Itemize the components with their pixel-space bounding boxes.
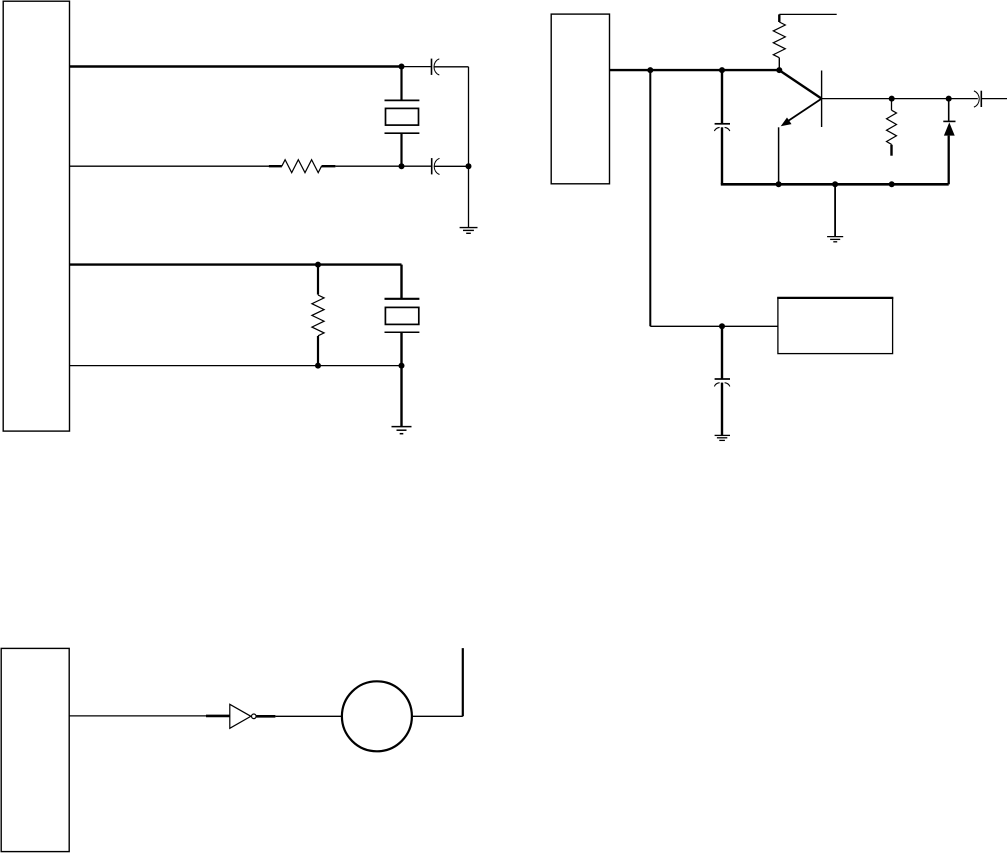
- wire base line to right: [822, 98, 978, 100]
- node A junction dot: [399, 64, 405, 70]
- wire node C to C2: [402, 165, 432, 167]
- transistor Q1 base bar: [821, 71, 823, 128]
- resistor R1 lead left: [269, 165, 282, 167]
- resistor R2 lead bottom: [317, 336, 319, 366]
- wire node A to C1: [402, 66, 431, 68]
- resistor R3 top rail wire: [779, 13, 836, 15]
- wire U4 pin to inverter: [69, 715, 206, 717]
- box U3 top edge: [777, 297, 893, 299]
- wire U2 pin to transistor base node: [610, 69, 780, 71]
- IC block U4 (bottom-left): [1, 648, 69, 851]
- ground G2: [392, 427, 412, 434]
- capacitor C4: [974, 91, 981, 107]
- node N junction dot: [832, 181, 838, 187]
- transistor Q1 collector lead: [779, 70, 821, 98]
- wire C1 to corner: [434, 66, 468, 68]
- capacitor C5: [714, 379, 730, 386]
- node L junction dot: [946, 96, 952, 102]
- resistor R1 lead right: [322, 165, 336, 167]
- inverter gate: [230, 704, 251, 728]
- wire node F down to ground G2: [400, 366, 402, 427]
- node H junction dot: [719, 67, 725, 73]
- bottom rail wire: [721, 183, 949, 186]
- inverter input lead: [206, 715, 230, 718]
- inverter bubble: [252, 714, 257, 719]
- diode D1 lead top: [948, 99, 950, 121]
- wire lower crystal top net (U1 pin to Y2): [70, 263, 402, 265]
- wire C2 to node B: [434, 165, 468, 167]
- IC block U2 (top-right): [551, 14, 609, 184]
- diode D1 lead bottom: [948, 136, 950, 185]
- wire right vertical C1 side down to node B: [468, 67, 470, 166]
- speaker circle LS1: [342, 681, 412, 751]
- wire branch to U3 box: [650, 325, 778, 327]
- resistor R3 lead bottom: [778, 58, 780, 70]
- resistor R3: [773, 22, 785, 58]
- node F junction dot: [399, 363, 405, 369]
- ground G4: [715, 435, 730, 440]
- wire R1 to node C: [335, 165, 401, 167]
- ground G3 stem: [834, 184, 836, 236]
- resistor R2 lead top: [317, 265, 319, 295]
- wire XTAL2 net (U1 pin to R1): [70, 165, 270, 167]
- wire speaker to corner: [412, 715, 463, 717]
- node I junction dot: [776, 67, 782, 73]
- resistor R2: [312, 295, 324, 336]
- node B junction dot: [466, 163, 472, 169]
- capacitor C1: [432, 59, 440, 75]
- wire XTAL1 net (U1 pin to node A): [70, 65, 402, 67]
- wire branch down from node G: [649, 70, 651, 326]
- ground G1: [460, 228, 478, 234]
- resistor R1: [282, 160, 322, 173]
- transistor Q1 emitter lead diagonal: [787, 99, 822, 122]
- wire C4 to right edge: [981, 98, 1007, 100]
- ground G3: [827, 237, 843, 242]
- node O junction dot: [889, 181, 895, 187]
- capacitor C5 lead bottom: [721, 383, 723, 436]
- capacitor C3 lead top: [721, 70, 723, 124]
- resistor R4 lead bottom (unconnected stub): [891, 143, 893, 146]
- component box U3 (crystal module): [778, 298, 893, 354]
- node K junction dot: [889, 96, 895, 102]
- wire vertical up from speaker net: [462, 648, 464, 716]
- wire lower crystal bottom net (U1 pin to Y2): [70, 365, 402, 367]
- capacitor C5 lead top: [721, 326, 723, 379]
- resistor R4: [887, 110, 897, 144]
- node M junction dot: [776, 181, 782, 187]
- inverter output lead: [257, 715, 276, 718]
- capacitor C2: [432, 158, 440, 174]
- IC block U1 (top-left microcontroller): [3, 1, 69, 431]
- node J junction dot: [719, 323, 725, 329]
- resistor R4 lead top: [891, 99, 893, 111]
- capacitor C3: [714, 124, 730, 131]
- node C junction dot: [399, 163, 405, 169]
- node D junction dot: [315, 262, 321, 268]
- crystal Y2: [385, 265, 420, 366]
- node E junction dot: [315, 363, 321, 369]
- capacitor C3 lead bottom: [721, 127, 723, 184]
- resistor R3 lead top: [778, 14, 780, 22]
- transistor Q1 emitter arrowhead: [781, 118, 792, 127]
- wire inverter to speaker: [275, 715, 342, 717]
- wire node B down to ground G1: [468, 166, 470, 227]
- crystal Y1: [385, 67, 420, 167]
- node G junction dot: [647, 67, 653, 73]
- transistor Q1 emitter vertical lead: [778, 127, 780, 184]
- diode D1: [943, 121, 955, 135]
